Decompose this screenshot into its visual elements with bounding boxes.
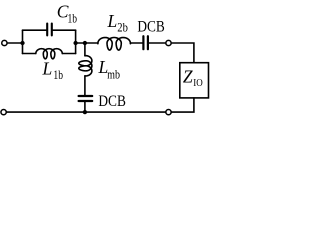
port terminal P4 (bottom right) — [166, 109, 171, 114]
svg-text:IO: IO — [193, 78, 203, 89]
capacitor C1b — [47, 24, 52, 36]
port terminal P1 (input, top left) — [2, 40, 7, 45]
svg-text:Z: Z — [183, 67, 193, 87]
wire tank left vertical — [22, 30, 24, 53]
wire capacitor C1b right lead — [53, 29, 76, 31]
capacitor DCB2 (dc block, shunt) — [79, 96, 93, 101]
wire node C to inductor L2b — [85, 42, 98, 45]
wire inductor L1b right lead — [62, 53, 75, 55]
impedance box Z_IO — [180, 63, 209, 98]
port terminal P2 (output, mid right) — [166, 40, 171, 45]
wire DCB2 to rail — [84, 102, 86, 112]
svg-text:1b: 1b — [68, 11, 78, 25]
wire inductor L1b left lead — [23, 53, 36, 55]
label DCB2 — [98, 93, 126, 110]
wire Lmb to capacitor DCB2 — [84, 76, 86, 95]
port terminal P3 (bottom left) — [1, 109, 6, 114]
svg-text:1b: 1b — [53, 68, 63, 82]
inductor Lmb (shunt) — [79, 56, 92, 76]
wire P2 to Z_IO box top — [171, 43, 194, 63]
label C1b — [57, 2, 77, 26]
label L1b — [42, 59, 64, 83]
inductor L1b — [36, 49, 63, 59]
wire L2b to capacitor DCB1 — [131, 42, 143, 45]
svg-text:DCB: DCB — [137, 19, 164, 36]
inductor L2b — [98, 38, 130, 51]
wire Z_IO box bottom to rail — [171, 98, 194, 112]
node C junction dot — [83, 41, 87, 45]
wire node C down to inductor Lmb — [84, 43, 86, 56]
wire P1 to node A — [7, 42, 22, 44]
wire tank right vertical — [75, 30, 77, 53]
label Lmb — [98, 57, 121, 81]
label Z_IO — [183, 67, 203, 89]
label L2b — [107, 11, 128, 35]
svg-text:L: L — [42, 59, 53, 79]
wire capacitor C1b left lead — [23, 29, 47, 31]
wire bottom rail — [7, 111, 166, 113]
svg-text:L: L — [107, 11, 118, 31]
wire node B to node C — [76, 42, 85, 44]
node D junction dot on rail — [83, 110, 87, 114]
node A junction dot — [20, 41, 24, 45]
wire DCB1 to port P2 — [149, 42, 165, 44]
svg-text:mb: mb — [107, 67, 120, 81]
node B junction dot — [73, 41, 77, 45]
capacitor DCB1 (dc block, series) — [143, 36, 148, 49]
svg-text:DCB: DCB — [98, 93, 126, 110]
label DCB1 — [137, 19, 164, 36]
svg-text:2b: 2b — [117, 21, 128, 35]
